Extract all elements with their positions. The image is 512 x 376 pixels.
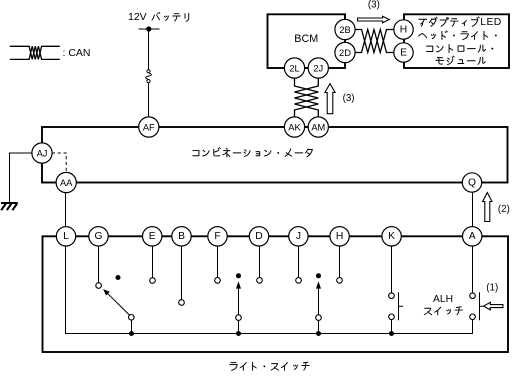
svg-text:H: H [336, 231, 343, 242]
svg-text:AK: AK [288, 122, 301, 132]
svg-text:: CAN: : CAN [63, 47, 91, 59]
svg-text:(3): (3) [368, 0, 380, 11]
svg-text:E: E [149, 231, 156, 242]
svg-text:B: B [178, 231, 185, 242]
svg-text:G: G [94, 231, 102, 242]
svg-text:AA: AA [60, 178, 73, 188]
svg-text:ALH: ALH [433, 294, 453, 305]
svg-text:D: D [255, 231, 262, 242]
svg-text:AF: AF [143, 122, 155, 132]
svg-text:(3): (3) [343, 93, 355, 104]
svg-text:2L: 2L [289, 63, 299, 73]
svg-text:2D: 2D [339, 48, 351, 58]
svg-text:K: K [388, 231, 395, 242]
svg-text:L: L [63, 231, 69, 242]
svg-text:12V: 12V [128, 11, 147, 23]
svg-text:E: E [400, 47, 407, 58]
svg-text:J: J [296, 231, 301, 242]
svg-text:2J: 2J [313, 63, 323, 73]
svg-text:BCM: BCM [294, 33, 318, 45]
svg-text:AJ: AJ [37, 148, 48, 158]
svg-text:2B: 2B [339, 25, 350, 35]
svg-text:Q: Q [468, 177, 476, 188]
svg-text:(2): (2) [498, 204, 510, 215]
svg-text:A: A [469, 231, 476, 242]
svg-text:LED: LED [480, 17, 501, 28]
svg-text:H: H [400, 24, 407, 35]
svg-text:AM: AM [311, 122, 325, 132]
svg-text:F: F [214, 231, 220, 242]
svg-text:(1): (1) [486, 282, 498, 293]
